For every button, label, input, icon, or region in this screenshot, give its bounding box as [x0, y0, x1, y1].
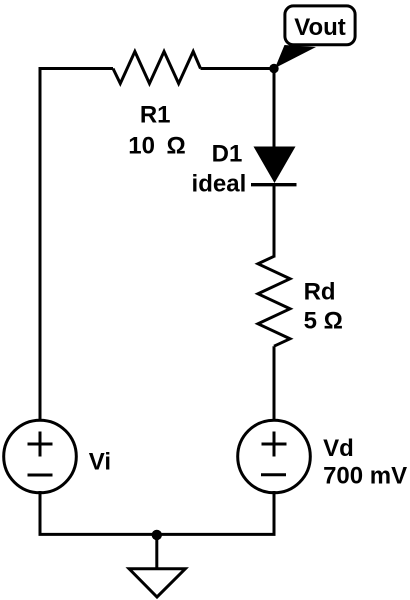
junction (ground node dot)	[152, 530, 162, 540]
wire: Rd bottom lead to Vd top	[273, 346, 276, 420]
diode D1 (ideal)	[251, 147, 297, 185]
voltage source Vi	[4, 420, 77, 493]
svg-text:Vout: Vout	[294, 14, 346, 41]
ground	[129, 534, 185, 597]
resistor R1	[113, 52, 201, 84]
wire: Vd bottom to ground rail	[273, 491, 276, 534]
svg-text:Vi: Vi	[89, 448, 111, 475]
wire: R1 right lead to Vout node	[201, 67, 275, 70]
svg-text:700 mV: 700 mV	[323, 463, 407, 490]
svg-text:ideal: ideal	[192, 171, 247, 198]
svg-text:R1: R1	[140, 102, 171, 129]
svg-text:5 Ω: 5 Ω	[304, 308, 343, 335]
resistor Rd	[258, 256, 290, 346]
voltage source Vd	[238, 420, 311, 493]
wire: D1 cathode to Rd top lead	[273, 185, 276, 258]
svg-text:D1: D1	[212, 141, 243, 168]
wire: Vi bottom to ground rail (bottom rail)	[40, 491, 276, 534]
callout tail pointing to node Vout	[275, 45, 316, 68]
svg-text:Ω: Ω	[166, 133, 185, 160]
net label Vout (callout box)	[285, 6, 355, 45]
wire: left branch from R1 left lead down to Vi top	[40, 69, 113, 421]
svg-text:Vd: Vd	[323, 435, 354, 462]
svg-text:10: 10	[128, 133, 155, 160]
wire: Vout node down to D1 anode	[273, 69, 276, 151]
node Vout (junction dot)	[269, 64, 278, 73]
svg-text:Rd: Rd	[304, 278, 336, 305]
